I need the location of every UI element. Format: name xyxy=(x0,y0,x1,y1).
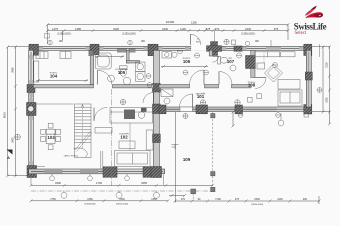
svg-text:970: 970 xyxy=(215,27,220,31)
logo red swoosh icon xyxy=(309,6,317,13)
niche blocks on top wall in 105 xyxy=(117,49,127,53)
svg-text:2440: 2440 xyxy=(245,27,251,31)
svg-text:WC: WC xyxy=(229,58,233,60)
svg-text:1485: 1485 xyxy=(75,27,81,31)
svg-text:8010: 8010 xyxy=(3,111,7,118)
svg-text:OBÝV. POKOJ: OBÝV. POKOJ xyxy=(64,155,79,158)
circled cross symbols (drains/lights) xyxy=(120,53,308,119)
svg-text:3430: 3430 xyxy=(113,27,119,31)
left wall piers xyxy=(27,85,37,178)
svg-text:1780: 1780 xyxy=(215,198,221,201)
small wall stubs in bathroom 105 xyxy=(127,50,130,63)
svg-text:1500: 1500 xyxy=(254,198,260,201)
svg-text:1350: 1350 xyxy=(326,97,329,103)
svg-text:POKOJ: POKOJ xyxy=(248,82,255,84)
overall dim line xyxy=(46,20,290,26)
axis dash-dot line with circles xyxy=(31,190,212,192)
svg-text:109: 109 xyxy=(183,157,191,162)
svg-text:(1350x1100): (1350x1100) xyxy=(241,33,254,36)
door room 107 xyxy=(219,72,232,85)
interior wall between 106 and 107 xyxy=(209,50,212,56)
shaft block in 107 xyxy=(246,56,256,69)
svg-text:875: 875 xyxy=(206,27,211,31)
svg-text:10400: 10400 xyxy=(166,20,175,24)
svg-text:1500: 1500 xyxy=(119,198,125,201)
axis circle symbols on top wall xyxy=(48,39,250,53)
kitchen counter xyxy=(110,108,153,151)
svg-text:ZÁDVEŘÍ: ZÁDVEŘÍ xyxy=(196,93,206,96)
door room 108 xyxy=(255,78,266,89)
svg-text:1350: 1350 xyxy=(191,21,197,25)
top wall sill blocks xyxy=(39,47,304,50)
svg-text:4430: 4430 xyxy=(162,27,168,31)
svg-text:2100: 2100 xyxy=(326,62,329,68)
hall 101 cabinet xyxy=(161,89,173,104)
svg-text:KUCHYŇ: KUCHYŇ xyxy=(119,133,129,136)
door 106 to 107 xyxy=(213,56,219,62)
party wall (middle vertical) xyxy=(154,50,160,173)
chimney circle on left wall xyxy=(28,106,34,112)
door hall to living xyxy=(143,93,154,104)
svg-text:475: 475 xyxy=(235,198,240,201)
svg-text:1350: 1350 xyxy=(151,198,157,201)
tiny sub-labels xyxy=(47,58,256,158)
svg-text:1750: 1750 xyxy=(50,198,56,201)
couch xyxy=(115,130,154,167)
svg-text:3980: 3980 xyxy=(12,67,15,73)
ext lines bottom wall to dim row xyxy=(30,175,32,186)
interior dim line room 105 xyxy=(95,55,124,58)
bottom-left exterior wall xyxy=(29,169,165,174)
svg-text:POKOJ: POKOJ xyxy=(50,73,57,75)
interior wall below rooms 104/105 xyxy=(33,85,153,88)
svg-text:Select: Select xyxy=(295,31,307,36)
sideboard xyxy=(95,128,112,134)
right exterior wall xyxy=(306,50,311,107)
circle symbol on left dim line xyxy=(15,134,21,140)
interior wall between 107/hall and 108 xyxy=(251,50,255,77)
section marker A xyxy=(7,150,13,161)
interior wall between 104 and 105 xyxy=(90,50,93,84)
axis circle below right wall xyxy=(278,113,284,126)
svg-text:975: 975 xyxy=(274,27,279,31)
svg-text:JÍDELNA: JÍDELNA xyxy=(47,133,57,136)
coffee table xyxy=(119,141,135,149)
sill line above bottom wall + shelf lines near couch xyxy=(34,165,46,167)
tiny square + vline above top wall xyxy=(232,40,236,45)
svg-text:1350: 1350 xyxy=(87,198,93,201)
svg-text:KOUPELNA: KOUPELNA xyxy=(116,68,128,71)
right-section bottom exterior wall xyxy=(159,107,312,112)
door landing to kitchen xyxy=(94,108,107,121)
svg-text:(1350x1100): (1350x1100) xyxy=(251,204,263,206)
top wall piers xyxy=(29,42,312,56)
svg-text:3420: 3420 xyxy=(12,137,15,143)
svg-text:3300: 3300 xyxy=(55,181,61,185)
svg-text:SwissLife: SwissLife xyxy=(294,21,327,31)
svg-text:(1350x1100): (1350x1100) xyxy=(116,204,128,206)
door room 106 xyxy=(190,70,205,85)
entry door swing at top wall xyxy=(190,31,214,45)
interior wall between 106/107 and hall 101 xyxy=(159,85,251,88)
window size labels above wall xyxy=(59,41,260,43)
svg-text:1100: 1100 xyxy=(180,27,186,31)
svg-text:1730: 1730 xyxy=(96,181,102,185)
section line through living room xyxy=(110,89,112,186)
segment dim line xyxy=(45,21,290,45)
door to bathroom 105 xyxy=(98,70,112,84)
svg-text:460: 460 xyxy=(303,198,308,201)
svg-text:1475: 1475 xyxy=(52,27,58,31)
svg-text:POKOJ: POKOJ xyxy=(183,58,190,60)
landing edge line xyxy=(34,103,74,105)
terrace small vert dim xyxy=(232,111,235,128)
svg-text:(1350x1100): (1350x1100) xyxy=(122,33,135,36)
svg-text:1240: 1240 xyxy=(277,198,283,201)
svg-text:3365: 3365 xyxy=(141,181,147,185)
right-bottom wall piers xyxy=(159,105,312,115)
left exterior wall (windows) xyxy=(29,50,34,174)
svg-text:(1350x1100): (1350x1100) xyxy=(57,33,70,36)
svg-text:470: 470 xyxy=(181,198,186,201)
interior dim line room 104 xyxy=(36,79,88,82)
top exterior wall band (windows) xyxy=(29,46,312,51)
door terrace to hall xyxy=(180,94,193,107)
bottom-left wall piers xyxy=(103,167,153,178)
bottom wall axis circles xyxy=(50,174,130,181)
svg-text:A: A xyxy=(7,155,10,160)
svg-text:(1350x600): (1350x600) xyxy=(84,204,95,206)
dining table and chairs xyxy=(41,123,61,149)
